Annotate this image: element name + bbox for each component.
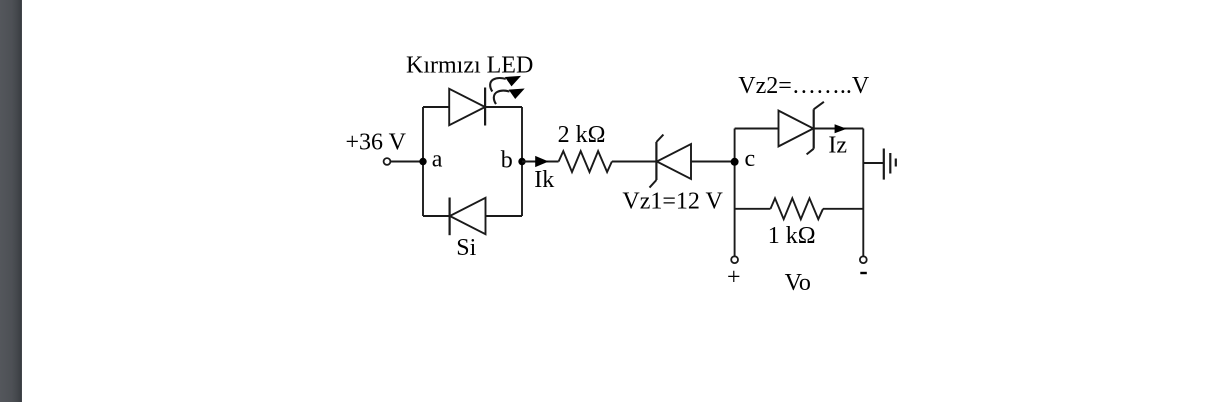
wire top branch left segment [423, 106, 449, 108]
ground bar long [883, 149, 885, 180]
wire bottom-right branch right segment [823, 208, 863, 210]
svg-text:2 kΩ: 2 kΩ [558, 122, 606, 148]
wire top branch right segment [485, 106, 522, 108]
svg-text:Vo: Vo [785, 270, 811, 296]
svg-text:a: a [432, 146, 443, 172]
svg-text:Iz: Iz [828, 133, 847, 159]
terminal Vo+ (open circle) [731, 256, 738, 263]
svg-text:Ik: Ik [534, 167, 554, 193]
LED D1 cathode bar [484, 88, 486, 126]
current arrow Ik [535, 156, 548, 167]
node c dot [731, 158, 739, 166]
LED light arrow 2 [494, 89, 525, 105]
LED D1 triangle [449, 89, 485, 125]
zener Vz1 cathode bar [655, 142, 657, 180]
wire left-loop right vertical [521, 107, 523, 216]
wire zener Vz2 to right vertical [814, 128, 864, 130]
zener Vz1 bottom hook [650, 180, 657, 188]
wire left-loop left vertical [422, 107, 424, 216]
node c vertical wire [734, 129, 736, 257]
terminal Vo- (open circle) [860, 256, 867, 263]
svg-text:Kırmızı LED: Kırmızı LED [406, 53, 533, 79]
wire top-right branch to zener Vz2 [735, 128, 779, 130]
current arrow Iz [835, 124, 847, 133]
wire bottom branch right segment [486, 215, 523, 217]
LED light arrow 1 [490, 76, 521, 92]
terminal +36V (open circle) [384, 158, 391, 165]
wire source to node a [391, 161, 423, 163]
zener diode Vz1 triangle [657, 144, 691, 179]
label minus terminal [860, 272, 867, 274]
svg-text:Vz1=12 V: Vz1=12 V [622, 189, 723, 215]
svg-text:c: c [745, 146, 756, 172]
node b dot [518, 158, 525, 165]
ground bar medium [889, 153, 891, 174]
zener Vz2 cathode bar [813, 109, 815, 148]
svg-text:+36 V: +36 V [346, 130, 407, 156]
wire node b to resistor [522, 161, 559, 163]
wire bottom branch left segment [423, 215, 450, 217]
ground stub wire [863, 162, 884, 164]
zener Vz2 top hook [814, 102, 824, 110]
wire resistor to zener Vz1 [612, 161, 657, 163]
zener Vz2 bottom hook [807, 149, 814, 155]
node a dot [419, 158, 426, 165]
ground bar short [895, 159, 897, 167]
left dark sidebar [0, 0, 22, 402]
wire zener Vz1 to node c [691, 161, 735, 163]
zener Vz1 top hook [656, 135, 663, 142]
resistor R1 2 kOhm zigzag [559, 151, 612, 172]
wire bottom-right branch left segment [735, 208, 771, 210]
zener diode Vz2 triangle [779, 111, 814, 147]
svg-text:1 kΩ: 1 kΩ [768, 223, 816, 249]
svg-text:b: b [501, 148, 513, 174]
resistor R2 1 kOhm zigzag [771, 198, 824, 219]
diode Si cathode bar [449, 198, 451, 236]
diode Si triangle [450, 198, 486, 234]
right vertical wire [862, 129, 864, 257]
svg-text:Si: Si [456, 235, 476, 261]
svg-text:Vz2=……..V: Vz2=……..V [738, 73, 870, 99]
svg-text:+: + [727, 265, 741, 291]
